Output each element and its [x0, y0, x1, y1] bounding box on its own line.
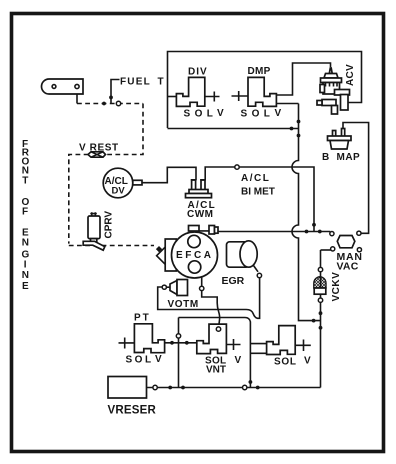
svg-text:V: V: [217, 108, 224, 119]
svg-text:SOL: SOL: [241, 109, 275, 120]
inline port rings: [116, 101, 322, 389]
wire: dashed hose to EFCA inlet arrow: [69, 245, 154, 247]
svg-text:DMP: DMP: [248, 66, 271, 77]
wire: VOTM to EGR hose: [158, 278, 260, 319]
svg-text:MAP: MAP: [337, 152, 361, 163]
svg-text:N: N: [22, 238, 29, 249]
svg-text:T: T: [158, 77, 164, 88]
svg-text:DIV: DIV: [188, 67, 208, 78]
svg-text:E: E: [22, 281, 29, 292]
svg-text:F: F: [22, 206, 28, 217]
port plus DIV: [206, 92, 220, 102]
wire: A/CL CWM right pin to BI MET line down to man vac line: [205, 167, 314, 232]
svg-text:VOTM: VOTM: [168, 299, 199, 310]
wire: fuel vapor valve drop to dashed manifold line: [76, 89, 78, 104]
svg-text:EGR: EGR: [222, 275, 245, 287]
svg-text:VCKV: VCKV: [331, 272, 342, 302]
solenoid SOL V right body: [267, 326, 296, 355]
wire: vent branch hose to right solenoid: [179, 318, 251, 388]
actuator EFCA: [156, 226, 218, 279]
svg-text:VRESER: VRESER: [108, 405, 157, 417]
wire: DIV feed stub: [168, 96, 177, 98]
valve CPRV: [83, 212, 105, 250]
wire: EFCA bottom port to SOL VNT pipe: [202, 276, 220, 327]
regulator A/CL DV: [103, 168, 142, 198]
wire: MAN VAC lower-left port to VCKV vertical: [321, 249, 331, 251]
svg-text:SOL: SOL: [184, 109, 218, 120]
wire: bottom bus from VRESER: [147, 387, 321, 389]
solenoid PT body: [134, 324, 164, 353]
sensor B MAP: [328, 129, 352, 150]
port plus SOL VNT: [227, 339, 241, 350]
motor VOTM: [166, 280, 187, 296]
svg-text:SOL: SOL: [274, 357, 297, 368]
port circles MAN VAC: [330, 232, 334, 236]
svg-text:V: V: [275, 108, 282, 119]
solenoid SOL VNT body: [197, 324, 227, 354]
port plus DMP: [232, 91, 249, 101]
svg-text:VAC: VAC: [337, 261, 359, 273]
svg-text:VNT: VNT: [206, 365, 226, 376]
svg-text:PT: PT: [134, 313, 151, 324]
tank VRESER: [108, 377, 147, 399]
check valve VCKV: [314, 277, 326, 294]
label FRONT OF ENGINE vertical: [22, 139, 30, 292]
svg-text:BI MET: BI MET: [241, 187, 275, 198]
wire: dashed from V REST left and down: [69, 155, 89, 244]
svg-text:V REST: V REST: [79, 143, 119, 154]
solenoid DMP body: [248, 77, 276, 106]
svg-text:V: V: [155, 354, 162, 365]
svg-text:ACV: ACV: [345, 64, 356, 86]
svg-text:V: V: [304, 356, 311, 367]
port plus PT: [119, 338, 135, 349]
svg-text:I: I: [24, 259, 27, 270]
wire: FUEL T label leader: [111, 80, 120, 104]
port plus right solenoid: [295, 340, 311, 352]
valve EGR: [227, 241, 259, 272]
svg-text:DV: DV: [112, 186, 126, 197]
svg-text:CPRV: CPRV: [104, 211, 115, 239]
svg-text:B: B: [322, 152, 329, 163]
wire: PT output to SOL VNT: [164, 342, 197, 344]
wire: EFCA top hose to MAN VAC upper-left port: [199, 230, 330, 233]
wire: DMP to ACV top: [277, 63, 331, 95]
svg-text:N: N: [22, 270, 29, 281]
svg-text:CWM: CWM: [187, 209, 214, 220]
wire: vent branch vertical through PT output down to bus: [178, 318, 180, 388]
wire: VCKV vertical line down to bottom bus: [320, 250, 322, 388]
wire: branch stubs into right solenoid ports: [250, 344, 266, 354]
wire: main trunk with crossover hops: [292, 104, 320, 321]
wire: B MAP to MAN VAC upper-right port: [343, 123, 369, 234]
wire: loop DIV to ACV right port: [168, 52, 362, 129]
svg-text:T: T: [22, 175, 28, 186]
wire: DMP lower port to trunk: [277, 103, 299, 105]
svg-text:EFCA: EFCA: [176, 250, 214, 261]
wire: dashed hose from fuel vapor valve to right riser: [77, 103, 143, 105]
wire: dashed riser down to V REST: [106, 104, 144, 155]
valve ACV: [317, 68, 350, 114]
svg-text:FUEL: FUEL: [120, 77, 151, 88]
motor A/CL CWM: [186, 180, 212, 198]
manifold vacuum fitting MAN VAC: [337, 236, 355, 248]
solenoid DIV body: [176, 77, 204, 106]
svg-text:A/CL: A/CL: [241, 173, 270, 184]
svg-text:SOL: SOL: [126, 355, 154, 366]
wire: box bottom edge to trunk: [168, 128, 299, 130]
svg-text:V: V: [235, 355, 242, 366]
wire: A/CL DV to A/CL CWM left pin: [142, 167, 196, 182]
fuel vapor separator valve: [42, 79, 83, 94]
valve V REST: [88, 152, 106, 157]
